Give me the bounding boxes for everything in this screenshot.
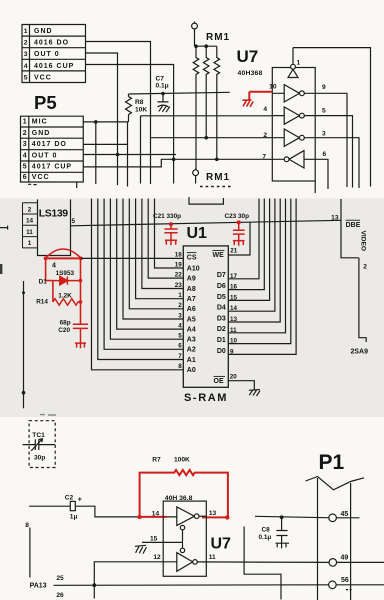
svg-text:18: 18 [175,251,183,258]
resistor RM1 element 1 [193,46,199,169]
svg-text:2: 2 [28,206,32,213]
resistor RM1 element 3 [214,46,220,159]
svg-text:15: 15 [150,536,158,543]
capacitor C8 [276,517,287,543]
wire OUT 0 upper block down [86,53,118,185]
wire gateA output net to P1 pin45 [255,516,360,518]
buffer gate 3 [272,129,359,188]
wire 4017 CUP row to gate4 output [83,159,284,167]
svg-text:R14: R14 [36,299,48,306]
edge smudge left [0,264,2,274]
ground for C7 [159,106,170,112]
trimmer capacitor TC1 [23,439,56,451]
svg-text:A6: A6 [187,306,196,313]
wire U7 pin4 input from left [141,116,273,184]
svg-text:0.1μ: 0.1μ [259,534,272,541]
trimmer TC1 dashed box [29,421,55,468]
svg-text:5: 5 [322,108,326,115]
buffer gate 2 [272,107,352,188]
svg-text:1: 1 [24,28,28,35]
svg-text:4016 DO: 4016 DO [34,40,69,47]
svg-text:13: 13 [209,510,217,517]
wire pin12 input from PA13 [94,562,177,585]
node red pin13 [225,515,229,519]
svg-text:26: 26 [56,592,64,599]
svg-text:C21 330p: C21 330p [153,213,181,220]
connector P1 break symbol [306,477,365,490]
svg-text:1μ: 1μ [70,514,78,521]
svg-text:4: 4 [263,106,267,113]
svg-text:A3: A3 [187,337,196,344]
svg-text:OUT 0: OUT 0 [34,51,60,58]
svg-text:C2: C2 [65,494,74,501]
svg-text:22: 22 [175,272,183,279]
svg-text:100K: 100K [174,457,190,464]
svg-text:VCC: VCC [32,174,50,181]
svg-text:A9: A9 [187,275,196,282]
node red right [79,257,83,261]
svg-text:2SA9: 2SA9 [351,348,369,355]
wire 4017 DO row [83,143,127,145]
buffer gate B lower [177,548,198,571]
svg-text:4: 4 [52,262,56,269]
svg-text:R8: R8 [135,99,144,106]
svg-text:D2: D2 [217,326,226,333]
P1 pin 45 circle [329,514,337,522]
svg-text:C23 30p: C23 30p [225,213,250,220]
svg-text:30p: 30p [34,454,45,461]
LS139 left pin rows [23,203,38,248]
node C21 red junction [169,222,173,226]
svg-text:11: 11 [209,554,216,561]
enable gate pin1 [288,48,298,78]
svg-text:6: 6 [323,151,327,158]
diode D1 [53,276,81,284]
wire data D5 [228,199,269,301]
svg-text:D0: D0 [217,348,226,355]
svg-text:D1: D1 [217,337,226,344]
resistor R14 [53,299,81,305]
decoder LS139 box [38,199,71,255]
svg-text:OUT 0: OUT 0 [32,152,58,159]
node RM1 r3 to gate4 wire junction [215,158,219,162]
wire 4016 CUP right and down [86,65,174,184]
svg-text:49: 49 [341,555,349,562]
svg-text:3: 3 [178,312,182,319]
node RM1 r1 top [194,44,198,48]
wire stub below pin2 corner [150,138,152,184]
wire PA13 row to P1 pin56 [54,584,384,587]
svg-text:WE: WE [213,252,225,259]
wire address bus A0 [92,199,184,370]
node R14 right [79,300,83,304]
svg-text:A4: A4 [187,326,196,333]
svg-text:3: 3 [23,141,27,148]
svg-text:D6: D6 [217,283,226,290]
red jumper arc LS139 pin4 [46,249,81,258]
svg-text:D3: D3 [217,315,226,322]
wire lone left vertical [23,281,25,408]
svg-text:U7: U7 [211,536,232,553]
svg-text:A2: A2 [187,347,196,354]
svg-text:21: 21 [230,248,238,255]
video chip box edge right [341,199,366,342]
svg-text:A0: A0 [187,367,196,374]
svg-text:12: 12 [153,554,161,561]
connector block P5 outline [21,116,84,182]
node MIC junction [94,120,98,124]
wire data D7 [228,199,259,279]
svg-text:11: 11 [26,229,33,236]
svg-text:2: 2 [263,132,267,139]
node on left vertical lower [22,391,26,395]
connector P5 pin numbers [23,119,27,182]
wire 4016 DO to U7 pin2 [86,42,273,138]
wire PA13 stub down [93,585,95,598]
wire pin8 down to PA13 row [29,528,31,578]
svg-text:6: 6 [23,174,27,181]
wire MIC branch down [95,122,97,184]
svg-text:D7: D7 [217,272,226,279]
node RM1 r2 top [204,44,208,48]
cut scribble marks [40,414,56,416]
svg-text:25: 25 [56,575,64,582]
svg-text:VIDEO: VIDEO [359,231,366,252]
capacitor C20 [73,324,88,343]
buffer gate 1 [272,85,347,187]
svg-text:GND: GND [32,130,51,137]
ground for OE [249,390,260,397]
svg-text:A10: A10 [187,265,200,272]
svg-text:RM1: RM1 [206,172,230,183]
svg-text:C8: C8 [262,527,271,534]
P1 pin 56 circle [329,581,337,589]
svg-text:OE: OE [214,378,224,385]
ground for C8 [276,543,290,548]
svg-text:10: 10 [269,84,277,91]
cut mark stubs top fragment bottom [28,181,315,193]
svg-text:5: 5 [24,74,28,81]
wire WE pin21 connection [229,222,250,255]
svg-text:GND: GND [34,28,53,35]
wire data D4 [228,199,275,312]
connector P5 row labels [32,119,72,182]
svg-text:3: 3 [322,131,326,138]
cut mark dashes below RM1 second [200,186,233,188]
wire CS net LS139 pin4 to U1 pin18 [81,257,184,259]
svg-text:P1: P1 [319,451,345,474]
wire OUT 0 P5 row [83,154,176,156]
svg-text:9: 9 [322,84,326,91]
svg-text:2: 2 [178,302,182,309]
wire cut stub bracket above U1 [189,197,223,204]
node C8 junction [280,515,284,519]
resistor R7 red loop [140,470,228,517]
svg-text:C7: C7 [156,76,165,83]
wire MIC row to R8 [83,121,128,123]
connector P1 left rail [317,478,319,600]
svg-text:1S953: 1S953 [56,270,75,277]
connector block upper (4016) outline [22,25,86,83]
svg-text:3: 3 [24,51,28,58]
connector P1 right rail [350,483,352,600]
svg-text:10K: 10K [135,107,147,114]
red wire pin14 segment [140,516,167,518]
wire address bus A1 [98,199,184,360]
svg-text:2: 2 [23,130,27,137]
connector symbol RM1 top [192,22,217,47]
node diode cathode [79,279,83,283]
svg-text:7: 7 [262,153,266,160]
svg-text:5: 5 [23,163,27,170]
svg-text:14: 14 [152,510,160,517]
svg-text:40H 36.8: 40H 36.8 [165,495,193,502]
svg-text:0.1μ: 0.1μ [156,83,169,90]
svg-text:A1: A1 [187,357,196,364]
cut dashes under 56 [346,589,353,591]
P1 pin 49 circle [329,559,337,567]
node PA13 junction [92,583,96,587]
svg-text:VCC: VCC [34,74,52,81]
svg-text:C20: C20 [58,327,70,334]
svg-text:RM1: RM1 [206,32,230,43]
wire address bus A2 [104,199,183,350]
wire LS139 pin5 select line to video chip pin13 [71,220,342,226]
capacitor C7 label [156,76,169,90]
svg-text:LS139: LS139 [39,208,68,220]
svg-text:1: 1 [297,60,301,67]
svg-text:45: 45 [341,511,349,518]
node RM1 r2 to pin2 wire junction [204,136,208,140]
connector symbol RM1 second [193,169,199,184]
U1 left pin numbers [175,251,183,370]
wire data D0 [228,199,296,355]
svg-text:+: + [78,497,82,504]
wire pin10 net horizontal [129,92,230,94]
svg-text:2: 2 [363,263,367,270]
svg-text:D5: D5 [217,294,226,301]
wire address bus A5 [123,199,183,320]
wire address bus A9 [148,199,183,279]
node C23 red junction [237,220,241,224]
op-amp U7 chip box [272,68,315,182]
node red left [44,257,48,261]
resistor R8 value label [135,99,147,114]
wire address bus A10 [155,199,184,269]
svg-text:4017 DO: 4017 DO [32,141,67,148]
resistor RM1 element 2 [203,46,209,138]
svg-text:A7: A7 [187,296,196,303]
wire address bus A7 [136,199,184,299]
node on left vertical upper [22,291,25,294]
svg-text:1: 1 [178,292,182,299]
svg-text:8: 8 [178,363,182,370]
buffer gate 4 reversed [284,151,328,189]
red wire pin10 to ground mod [249,92,272,100]
connector upper pin numbers [24,28,28,81]
wire address bus A3 [110,199,183,340]
svg-text:5: 5 [72,218,76,225]
wire step path right of U7 [244,527,281,600]
ground for C20 red [75,343,86,348]
wire enable bubbles vertical [182,530,184,548]
svg-text:S-RAM: S-RAM [184,392,228,404]
svg-text:4016 CUP: 4016 CUP [34,63,74,70]
svg-text:P5: P5 [34,92,57,113]
LS139 pin numbers 2 14 11 1 [26,206,34,247]
capacitor C2 [29,501,139,517]
svg-text:13: 13 [331,215,339,222]
svg-text:D4: D4 [217,305,226,312]
wire data D6 [228,199,264,290]
svg-text:D1: D1 [39,279,48,286]
svg-text:2: 2 [24,40,28,47]
svg-text:4: 4 [24,63,28,70]
wire data D2 [228,199,285,333]
wire gateB output to P1 pin49 [197,561,384,564]
red wire right branch down [80,258,82,324]
svg-text:MIC: MIC [32,119,48,126]
connector upper row labels [34,28,74,81]
svg-text:6: 6 [178,343,182,350]
svg-text:DBE: DBE [346,222,361,229]
wire OE pin20 to ground [228,381,254,390]
svg-text:20: 20 [230,374,238,381]
red ground symbol at pin10 [243,100,254,107]
wire pin1 to right edge down [293,48,371,187]
svg-text:40H368: 40H368 [238,70,263,77]
op-amp U7 lower chip box [163,501,206,576]
wire data D1 [228,199,290,344]
svg-text:14: 14 [26,218,34,225]
svg-text:4: 4 [178,323,182,330]
svg-text:1: 1 [28,240,32,247]
svg-text:1.2K: 1.2K [58,292,72,299]
U1 inside left labels [187,254,200,374]
svg-text:4: 4 [23,152,27,159]
svg-text:56: 56 [341,577,349,584]
capacitor C21 red mod [164,224,177,245]
svg-text:1: 1 [23,119,27,126]
wire stub left edge [0,226,8,230]
svg-text:U7: U7 [237,47,259,66]
CS overline [187,252,197,254]
svg-text:R7: R7 [152,457,161,464]
svg-text:7: 7 [178,353,182,360]
svg-text:A8: A8 [187,286,196,293]
wire pin15 [142,541,183,543]
svg-text:TC1: TC1 [32,432,45,439]
middle scan fragment gray band [0,199,384,418]
svg-text:U1: U1 [187,225,208,242]
red wire LS139 pin4 node [46,257,81,259]
svg-text:A5: A5 [187,316,196,323]
wire address bus A4 [117,199,184,330]
wire data D3 [228,199,280,323]
svg-text:5: 5 [178,333,182,340]
buffer gate A lower [167,507,206,530]
svg-text:8: 8 [25,522,29,529]
node C7 junction [161,92,165,96]
svg-text:PA13: PA13 [30,582,47,589]
wire address bus A6 [129,199,183,309]
node CUP junction [172,158,176,162]
resistor R8 [126,94,132,122]
node red pin14 [137,515,141,519]
svg-text:4017 CUP: 4017 CUP [32,163,72,170]
sram U1 box [183,246,228,387]
capacitor C23 red mod [233,222,245,245]
red wire left branch down [46,258,53,302]
wire address bus A8 [142,199,183,289]
svg-text:68p: 68p [60,319,71,326]
wire vertical R8 bottom down [127,122,129,187]
ground for pin15 [135,545,147,553]
U1 right pin numbers [230,273,238,356]
svg-text:23: 23 [175,282,183,289]
U1 inside right data labels [217,272,226,355]
svg-text:19: 19 [175,261,183,268]
node OUT0 junction [116,153,120,157]
svg-text:CS: CS [187,254,197,261]
capacitor C7 [158,94,169,107]
